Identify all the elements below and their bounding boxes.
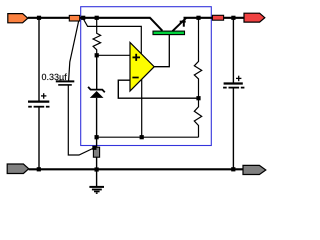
transistor Q1 base bar xyxy=(153,31,185,34)
wire 0.33uf to gnd pin xyxy=(68,86,94,156)
node internal gnd left xyxy=(95,135,99,139)
wire pin to 0.33uf cap xyxy=(69,21,79,81)
wire output cap bottom lead xyxy=(232,88,234,170)
wire input rail xyxy=(28,17,151,19)
node bottom rail left cap xyxy=(37,167,41,171)
node output cap top xyxy=(231,16,235,20)
node R1 top xyxy=(95,16,99,20)
node bottom rail output cap xyxy=(231,167,235,171)
pin GND (gray) xyxy=(93,147,99,157)
input tag IN xyxy=(8,14,28,23)
transistor Q1 emitter xyxy=(172,18,186,31)
wire output cap top lead xyxy=(232,18,234,84)
pin IN (orange) xyxy=(69,15,79,21)
label 0.33uf xyxy=(42,73,67,81)
wire gnd pin to bottom rail xyxy=(96,157,98,169)
capacitor C1 (input electrolytic) xyxy=(28,93,50,107)
zener diode D1 xyxy=(88,87,105,98)
wire to gnd pin xyxy=(96,137,98,147)
node gnd pin top xyxy=(92,146,96,150)
node divider tap xyxy=(196,96,200,100)
gnd tag right (gray) xyxy=(243,165,266,174)
wire left cap bottom lead xyxy=(38,107,40,170)
node zener/op-amp+ xyxy=(95,53,99,57)
node V- on gnd bus xyxy=(140,135,144,139)
wire output rail xyxy=(184,17,245,19)
transistor Q1 collector xyxy=(150,18,162,31)
blue box (regulator IC boundary) xyxy=(81,7,212,146)
wire to op-amp + input xyxy=(97,54,130,56)
resistor R2 xyxy=(194,19,201,98)
wire left cap top lead xyxy=(38,18,40,102)
ground symbol xyxy=(89,170,104,194)
wire zener to internal gnd xyxy=(96,98,98,137)
node bottom rail ground xyxy=(95,167,99,171)
wire op-amp V- supply xyxy=(141,79,143,137)
output tag OUT (red) xyxy=(244,13,265,22)
resistor R1 xyxy=(93,19,101,55)
node divider top xyxy=(196,16,200,20)
capacitor 0.33uf xyxy=(56,81,75,85)
node rail entering box xyxy=(81,16,85,20)
wire bottom rail xyxy=(29,168,244,170)
transistor Q1 emitter arrow xyxy=(180,21,186,23)
gnd tag left (gray) xyxy=(7,164,29,174)
wire down to zener xyxy=(96,55,98,89)
capacitor C3 (output electrolytic) xyxy=(223,76,244,88)
node input cap junction xyxy=(37,16,41,20)
op-amp U1 xyxy=(130,42,154,91)
resistor R3 xyxy=(194,98,201,137)
pin OUT (red) xyxy=(212,15,223,20)
wire internal gnd bus xyxy=(97,136,199,138)
wire op-amp output to base xyxy=(154,34,169,67)
wire op-amp V+ supply xyxy=(83,19,141,54)
wire op-amp - input feedback loop xyxy=(118,80,198,98)
